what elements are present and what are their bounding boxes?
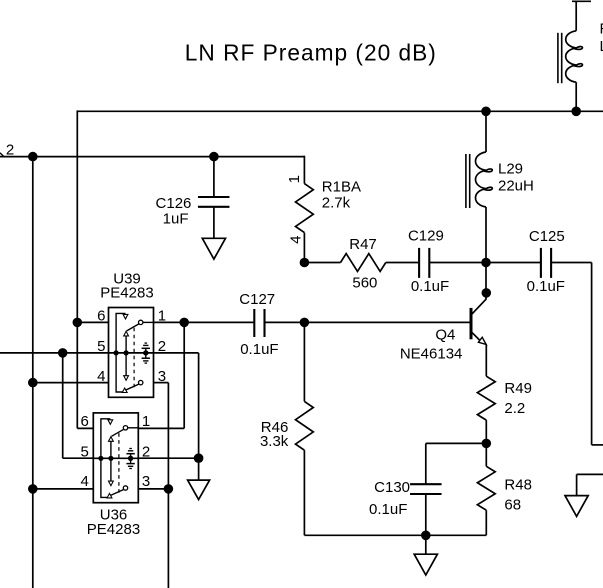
node R1BA-R47: [300, 258, 310, 268]
IC U36 PE4283 body: [93, 413, 138, 503]
wire: [485, 420, 487, 443]
svg-text:2.7k: 2.7k: [322, 195, 351, 212]
wire V+ bus: [77, 110, 603, 112]
wire: [486, 262, 542, 264]
wire U36 pin3: [139, 488, 169, 490]
wire control drop: [167, 489, 169, 588]
svg-text:560: 560: [352, 275, 377, 292]
svg-text:Q4: Q4: [435, 326, 455, 343]
svg-text:3: 3: [142, 473, 150, 490]
svg-text:1: 1: [142, 413, 150, 430]
wire: [198, 458, 200, 480]
ground (C126): [202, 238, 225, 259]
capacitor C129: [418, 248, 420, 278]
svg-text:1: 1: [158, 308, 166, 325]
svg-text:C130: C130: [374, 479, 410, 496]
capacitor C125: [540, 248, 542, 278]
wire right gnd stub: [577, 473, 603, 475]
node base: [300, 318, 310, 328]
node U39 pin4: [28, 378, 38, 388]
inductor L (top right, partial): [557, 33, 559, 83]
svg-text:RFC: RFC: [600, 21, 603, 38]
wire: [386, 262, 419, 264]
svg-text:0.1uF: 0.1uF: [527, 278, 565, 295]
svg-text:LN RF Preamp (20 dB): LN RF Preamp (20 dB): [185, 39, 437, 65]
node input-C126: [209, 152, 219, 162]
svg-text:0.1uF: 0.1uF: [240, 341, 278, 358]
node L29-C129-C125: [481, 258, 491, 268]
svg-text:0.1uF: 0.1uF: [411, 278, 449, 295]
svg-text:1uF: 1uF: [163, 211, 189, 228]
node gnd rail: [421, 531, 431, 541]
wire: [575, 82, 577, 111]
node U36 pin4: [28, 484, 38, 494]
transistor Q4: [471, 299, 486, 315]
wire: [485, 443, 487, 466]
wire U36 pin2: [139, 457, 199, 459]
wire: [485, 347, 487, 376]
partial component lead (top edge): [572, 0, 591, 2]
svg-text:C127: C127: [239, 291, 275, 308]
svg-text:R47: R47: [349, 236, 377, 253]
wire output right: [551, 262, 592, 264]
node emitter-R48-C130: [482, 439, 492, 449]
wire: [485, 207, 487, 263]
wire U36 pin1 up: [139, 427, 184, 429]
svg-text:L28: L28: [600, 38, 603, 55]
off-page connector tick: [0, 153, 4, 157]
svg-text:C125: C125: [529, 228, 565, 245]
ground (right stub): [565, 496, 588, 517]
node bus-L29: [481, 107, 491, 117]
wire input rail: [0, 156, 304, 158]
wire U36 pin6 drop: [76, 322, 78, 428]
wire U36 pin4: [33, 488, 94, 490]
svg-text:0.1uF: 0.1uF: [369, 501, 407, 518]
ground (U36 pin2): [188, 480, 210, 499]
svg-text:4: 4: [287, 236, 304, 244]
wire bus left drop: [76, 110, 78, 322]
svg-text:68: 68: [504, 496, 521, 513]
node input-left: [28, 152, 38, 162]
wire: [426, 442, 487, 444]
IC U39 PE4283 body: [109, 308, 154, 398]
wire collector: [485, 263, 487, 300]
inductor L29: [465, 154, 467, 208]
wire: [425, 535, 427, 554]
node pin5 tap: [58, 348, 68, 358]
svg-text:4: 4: [81, 473, 89, 490]
svg-text:3.3k: 3.3k: [260, 433, 289, 450]
svg-text:22uH: 22uH: [498, 178, 534, 195]
wire U36 pin5 drop: [62, 353, 64, 458]
svg-text:R49: R49: [504, 380, 532, 397]
capacitor C130: [410, 483, 442, 485]
svg-text:2.2: 2.2: [504, 400, 525, 417]
wire: [429, 262, 486, 264]
resistor R48: [477, 466, 495, 510]
resistor R47: [341, 254, 386, 272]
wire: [485, 111, 487, 152]
wire left vertical: [32, 157, 34, 588]
capacitor C127: [253, 309, 255, 337]
node U39 pin6: [73, 318, 83, 328]
wire U39 pin4: [33, 382, 109, 384]
node U36 pin2 gnd: [194, 453, 204, 463]
svg-text:PE4283: PE4283: [87, 521, 140, 538]
wire: [304, 262, 340, 264]
svg-text:1: 1: [286, 175, 303, 183]
wire U39 pin5 input: [0, 352, 109, 354]
resistor R46: [296, 401, 314, 450]
wire: [303, 450, 305, 535]
node U39pin1: [179, 318, 189, 328]
svg-text:C129: C129: [408, 228, 444, 245]
svg-text:L29: L29: [498, 160, 523, 177]
wire U39 pin6: [77, 321, 108, 323]
node U36 pin3: [164, 484, 174, 494]
resistor R1BA: [296, 184, 314, 233]
wire: [153, 321, 254, 323]
wire U39 pin3 drop: [153, 382, 168, 384]
svg-text:PE4283: PE4283: [100, 285, 153, 302]
svg-text:NE46134: NE46134: [400, 346, 463, 363]
wire: [303, 156, 305, 184]
node collector: [482, 288, 492, 298]
ground (emitter network): [414, 554, 437, 575]
capacitor C126: [213, 157, 215, 197]
wire R46 bottom rail: [304, 534, 486, 536]
wire base: [304, 321, 470, 323]
wire: [303, 322, 305, 401]
wire: [485, 510, 487, 535]
node bus-RFC: [571, 107, 581, 117]
wire: [303, 233, 305, 263]
svg-text:R1BA: R1BA: [322, 179, 361, 196]
wire U39 pin2 to U36 pin2: [153, 352, 198, 354]
svg-text:6: 6: [81, 413, 89, 430]
svg-text:R48: R48: [504, 477, 532, 494]
resistor R49: [477, 376, 495, 420]
wire: [265, 321, 305, 323]
